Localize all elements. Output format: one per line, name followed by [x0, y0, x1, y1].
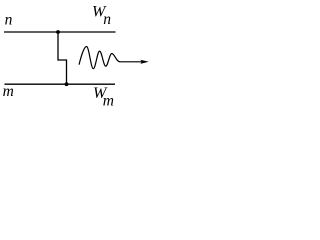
transition connector wire (step)	[58, 32, 67, 84]
energy level line m	[5, 83, 116, 85]
junction dot on level m	[65, 82, 69, 86]
svg-text:m: m	[3, 83, 14, 100]
emission arrow head	[140, 60, 148, 64]
junction dot on level n	[56, 30, 60, 34]
energy level line n	[4, 31, 116, 33]
svg-text:n: n	[5, 12, 13, 29]
svg-text:n: n	[103, 11, 111, 28]
emission arrow shaft	[120, 61, 143, 63]
photon wavy line	[79, 47, 120, 69]
svg-text:m: m	[103, 92, 114, 109]
